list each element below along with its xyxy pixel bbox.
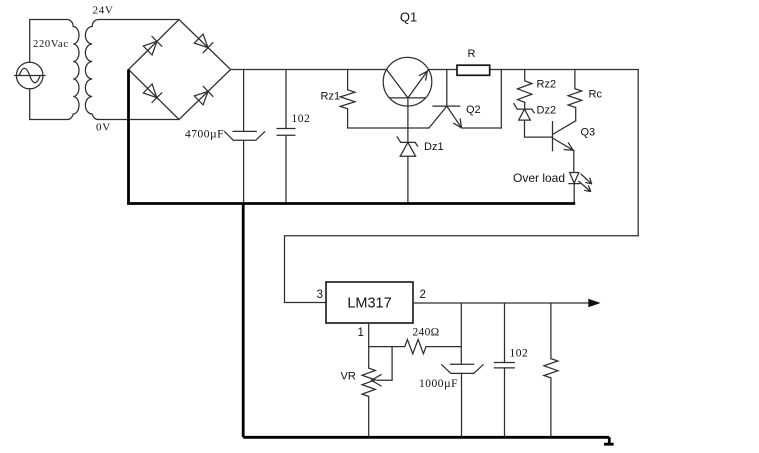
wire Dz2 to Q3 base (525, 120, 553, 137)
svg-text:LM317: LM317 (347, 296, 391, 312)
svg-text:Dz2: Dz2 (537, 105, 557, 117)
svg-text:1000µF: 1000µF (419, 378, 458, 390)
capacitor 102 (input bypass) (277, 70, 295, 203)
transistor Q2 (429, 70, 462, 129)
diode D2 (bridge top-right) (194, 34, 213, 53)
wire negative drop (thick) (242, 204, 245, 438)
transistor Q1 (pass transistor) (383, 57, 432, 142)
svg-text:24V: 24V (93, 5, 114, 17)
output arrow (588, 299, 600, 308)
potentiometer VR (362, 347, 392, 437)
svg-text:1: 1 (358, 327, 364, 339)
svg-text:Over load: Over load (513, 171, 565, 185)
transformer secondary winding (85, 20, 98, 120)
wire bottom return rail (thick) (243, 436, 609, 439)
svg-text:Rz2: Rz2 (537, 79, 557, 91)
svg-text:Q1: Q1 (400, 10, 417, 25)
svg-text:Dz1: Dz1 (424, 141, 444, 153)
wire emitter node up to rail (500, 70, 502, 129)
svg-text:2: 2 (420, 289, 426, 301)
transformer primary winding (67, 20, 79, 120)
svg-text:R: R (468, 48, 476, 60)
wire negative rail (thick) (127, 202, 575, 205)
svg-text:102: 102 (510, 348, 529, 360)
resistor 240ohm (369, 339, 462, 353)
wire bridge negative (thick) down (127, 70, 130, 204)
diode D3 (bridge bottom-left) (143, 84, 162, 103)
svg-text:102: 102 (292, 113, 311, 125)
LM317 regulator U1 (326, 282, 413, 323)
AC source 220Vac (15, 62, 46, 89)
capacitor 4700uF (225, 70, 265, 203)
wire link to regulator input (285, 236, 639, 303)
wire primary loop (30, 20, 67, 63)
wire Q3 emitter to LED (573, 150, 575, 172)
capacitor 1000uF (442, 364, 484, 436)
ground terminal (604, 437, 614, 444)
svg-text:Rz1: Rz1 (321, 91, 341, 103)
svg-text:0V: 0V (96, 122, 111, 134)
svg-text:VR: VR (341, 371, 356, 383)
wire 24V secondary top (98, 19, 179, 21)
wire pin1 (368, 323, 370, 347)
resistor load (544, 303, 558, 436)
resistor R (box style) (457, 65, 490, 75)
svg-text:Q2: Q2 (466, 104, 481, 116)
wire output to 240ohm node (460, 303, 462, 364)
diode D4 (bridge bottom-right) (194, 86, 213, 105)
svg-text:Rc: Rc (589, 89, 603, 101)
wire output pin2 (413, 302, 597, 304)
svg-text:4700µF: 4700µF (185, 129, 224, 141)
LED overload indicator (569, 173, 592, 203)
diode D1 (bridge top-left) (143, 36, 162, 55)
wire Rz1/Q1 base node (348, 127, 429, 129)
wire Dz1 anode to ground rail (407, 156, 409, 202)
svg-text:Q3: Q3 (581, 127, 596, 139)
svg-text:220Vac: 220Vac (33, 39, 69, 50)
wire Q2 emitter node (462, 127, 502, 129)
wire top positive rail (231, 69, 639, 71)
capacitor 102 (output bypass) (494, 303, 514, 436)
bridge rectifier diamond (129, 20, 231, 120)
svg-text:3: 3 (317, 289, 323, 301)
wire rail right corner down (637, 70, 639, 236)
zener diode Dz1 (397, 137, 418, 157)
zener diode Dz2 (514, 104, 535, 121)
resistor Rz1 (340, 70, 355, 129)
resistor Rz2 (518, 70, 532, 110)
transistor Q3 (553, 121, 576, 151)
wire 0V secondary bottom (98, 119, 179, 121)
resistor Rc (568, 70, 582, 121)
svg-text:240Ω: 240Ω (413, 327, 440, 339)
